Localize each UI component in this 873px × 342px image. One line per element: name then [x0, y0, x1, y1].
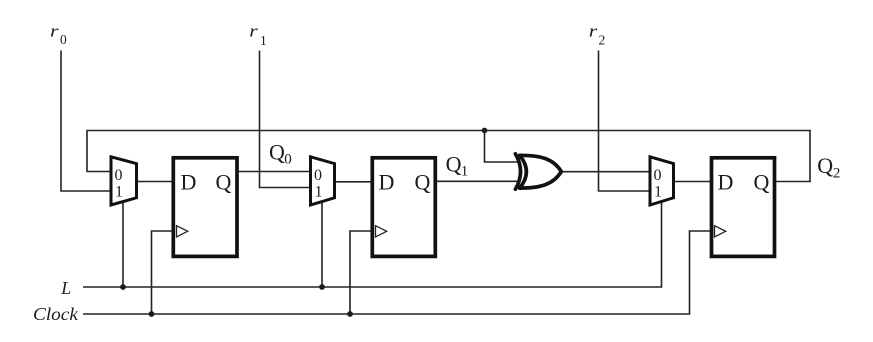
mux M3 — [650, 157, 674, 205]
flip-flop FF1 — [173, 158, 237, 257]
wire mux1 select — [122, 202, 124, 287]
junction L mux2 — [319, 284, 325, 290]
svg-text:0: 0 — [115, 167, 123, 184]
flip-flop FF3 — [712, 158, 775, 257]
label r2 — [589, 23, 606, 48]
svg-text:0: 0 — [284, 152, 292, 168]
wire XOR output to mux3 — [561, 171, 649, 173]
svg-text:r: r — [50, 23, 59, 41]
mux M2 labels 0 1 — [314, 167, 323, 201]
wire feedback Q2 to mux1 — [87, 131, 810, 182]
mux M3 labels 0 1 — [654, 167, 663, 201]
label r0 — [50, 23, 67, 47]
wire mux1 output to FF1 D — [137, 181, 174, 183]
svg-text:D: D — [718, 169, 734, 194]
svg-text:0: 0 — [654, 167, 662, 184]
svg-text:Q: Q — [269, 139, 285, 164]
svg-text:1: 1 — [654, 184, 662, 201]
wire Clock line — [83, 231, 711, 314]
svg-text:1: 1 — [260, 33, 267, 48]
svg-text:Q: Q — [415, 169, 431, 194]
wire mux3 output to FF3 D — [674, 181, 712, 183]
svg-text:2: 2 — [833, 165, 841, 181]
wire L line — [83, 201, 662, 288]
flip-flop FF1 clock triangle — [177, 226, 188, 237]
svg-text:D: D — [181, 169, 197, 194]
junction Clock FF1 — [149, 311, 155, 317]
wire Q0 FF1 to mux2 — [237, 171, 309, 173]
svg-text:2: 2 — [599, 33, 606, 48]
svg-text:1: 1 — [461, 164, 469, 180]
wire FF1 clock — [152, 231, 174, 314]
flip-flop FF3 clock triangle — [715, 226, 726, 237]
junction feedback tap — [482, 128, 488, 134]
svg-text:Clock: Clock — [33, 305, 79, 325]
label r1 — [249, 23, 266, 48]
svg-text:Q: Q — [754, 169, 770, 194]
svg-text:L: L — [60, 278, 71, 298]
wire r2 lead — [599, 51, 649, 192]
svg-text:1: 1 — [115, 184, 123, 201]
junction Clock FF2 — [347, 311, 353, 317]
svg-text:Q: Q — [817, 153, 833, 178]
svg-text:r: r — [589, 23, 598, 41]
mux M1 — [111, 157, 137, 205]
wire mux2 output to FF2 D — [335, 181, 373, 183]
svg-text:0: 0 — [60, 32, 67, 47]
label Q2 — [817, 153, 840, 181]
svg-text:Q: Q — [216, 169, 232, 194]
mux M2 — [311, 157, 335, 205]
label Q1 — [446, 151, 469, 179]
svg-text:0: 0 — [314, 167, 322, 184]
junction L mux1 — [120, 284, 126, 290]
wire Q1 FF2 to XOR bottom input — [435, 180, 518, 182]
flip-flop FF2 — [372, 158, 435, 257]
svg-text:1: 1 — [315, 184, 323, 201]
svg-text:Q: Q — [446, 151, 462, 176]
wire r0 lead — [61, 51, 110, 192]
XOR gate — [515, 154, 561, 189]
wire r1 lead — [260, 51, 310, 188]
svg-text:D: D — [379, 169, 395, 194]
mux M1 labels 0 1 — [115, 167, 124, 201]
flip-flop FF2 labels D Q — [379, 169, 431, 194]
svg-text:r: r — [249, 23, 258, 41]
flip-flop FF3 labels D Q — [718, 169, 770, 194]
label Q0 — [269, 139, 292, 167]
flip-flop FF1 labels D Q — [181, 169, 232, 194]
wire feedback tap to XOR top input — [485, 131, 519, 163]
wire FF2 clock — [350, 231, 372, 314]
flip-flop FF2 clock triangle — [376, 226, 387, 237]
wire mux2 select — [321, 202, 323, 287]
